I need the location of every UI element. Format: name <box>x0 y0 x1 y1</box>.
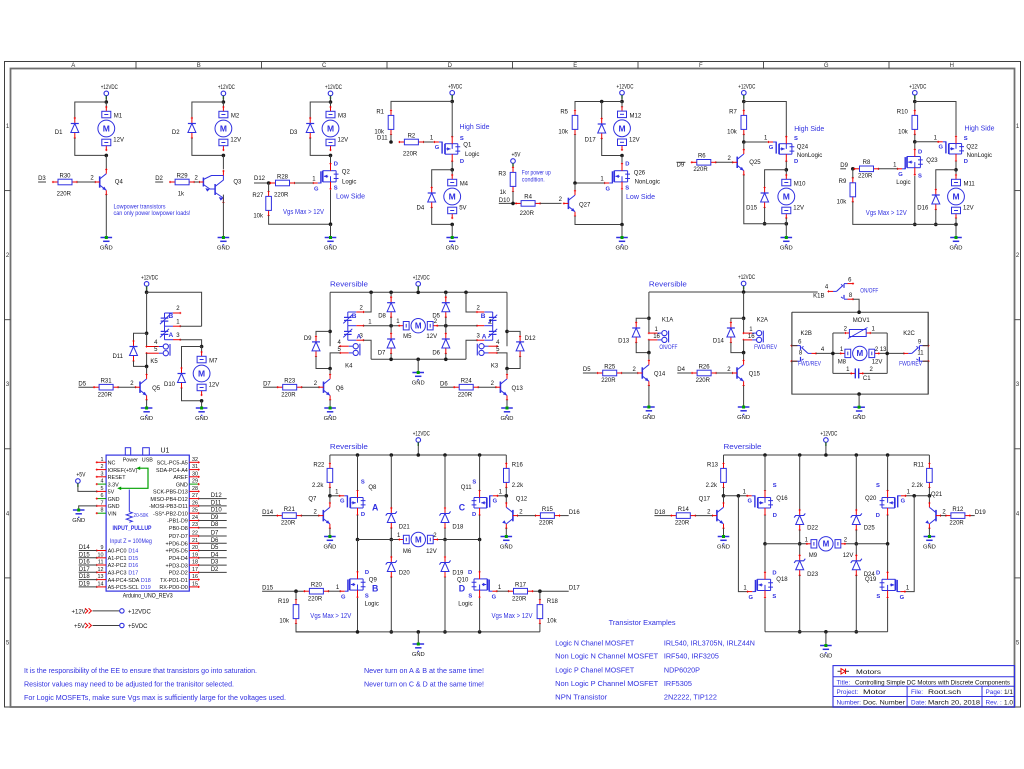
wire to transistor <box>743 353 745 361</box>
p-mosfet Q24 <box>767 136 794 163</box>
wire supply <box>146 286 148 292</box>
resistor R4 <box>515 201 541 207</box>
svg-text:Q19: Q19 <box>865 577 877 583</box>
wire <box>444 528 446 540</box>
wire <box>799 575 801 632</box>
wire diode bottom <box>731 343 744 353</box>
diode D13 <box>632 321 640 343</box>
svg-text:D: D <box>964 159 968 165</box>
svg-text:G: G <box>824 63 829 69</box>
wire to Q22 gate <box>915 141 938 143</box>
wire inner right <box>886 333 888 373</box>
wire to base <box>302 386 319 388</box>
p-mosfet Q1 <box>433 136 460 163</box>
supply link +5V to +5VDC <box>74 623 148 630</box>
wire motor row <box>765 543 807 545</box>
svg-text:D: D <box>448 63 453 69</box>
svg-text:20-50K: 20-50K <box>134 513 149 519</box>
svg-text:AREF: AREF <box>173 475 188 481</box>
transistor Q25 <box>732 149 745 176</box>
ground <box>642 406 655 421</box>
wire to Q10 <box>479 540 481 573</box>
wire to ground <box>330 224 332 237</box>
svg-text:5: 5 <box>101 486 104 492</box>
svg-text:14: 14 <box>98 581 104 587</box>
wire emitter <box>723 528 725 535</box>
svg-text:Q23: Q23 <box>926 158 938 164</box>
varistor MOV1 <box>833 328 887 339</box>
n-mosfet Q10 <box>472 571 498 598</box>
svg-text:M2: M2 <box>231 113 240 119</box>
wire to Q9 drain <box>357 540 359 573</box>
circuit block F2-3 relay drivers <box>0 0 1 1</box>
svg-text:Q10: Q10 <box>457 577 469 583</box>
svg-text:D: D <box>918 150 922 156</box>
wire +5V to pin5 <box>78 483 97 491</box>
svg-text:NPN Transistor: NPN Transistor <box>555 693 608 702</box>
column ticks top <box>136 62 889 69</box>
svg-text:condition.: condition. <box>522 178 545 184</box>
svg-text:D6: D6 <box>440 382 448 388</box>
resistor R8 <box>853 166 879 172</box>
wire to base <box>716 161 733 163</box>
wire input <box>970 515 975 517</box>
wire supply <box>330 96 332 102</box>
wire to gnd <box>785 218 787 237</box>
svg-text:Low Side: Low Side <box>336 192 365 201</box>
svg-text:+12VDC: +12VDC <box>128 609 152 615</box>
svg-text:D: D <box>876 570 880 576</box>
svg-text:Q14: Q14 <box>654 372 666 378</box>
svg-text:4: 4 <box>101 479 104 485</box>
wire left rail down <box>329 292 331 346</box>
resistor R9 <box>850 177 856 203</box>
svg-text:Q2: Q2 <box>342 169 351 175</box>
motor M7 <box>193 351 210 396</box>
title block logo diode <box>838 669 850 674</box>
zener diode D18 <box>439 507 450 529</box>
diode D15 <box>761 186 769 208</box>
svg-text:R7: R7 <box>729 110 737 116</box>
wire pin5 left <box>330 353 340 369</box>
svg-text:R18: R18 <box>547 599 559 605</box>
relay contact K2B <box>790 345 817 363</box>
svg-text:12V: 12V <box>629 138 640 144</box>
svg-text:M: M <box>103 124 110 134</box>
resistor R5 <box>572 109 578 135</box>
svg-text:A5-PC5-SCL: A5-PC5-SCL <box>108 585 139 591</box>
svg-text:D: D <box>459 584 465 594</box>
node D10 junction <box>511 202 515 206</box>
wire to ground <box>451 224 453 237</box>
ic U1 right pins 22-15 <box>159 531 226 592</box>
svg-text:GND: GND <box>72 518 85 524</box>
svg-text:1.0: 1.0 <box>1004 699 1013 706</box>
wire motor to pin1 right <box>437 325 477 327</box>
wire common to motor <box>879 352 904 354</box>
svg-text:K2B: K2B <box>801 331 812 337</box>
svg-text:Q20: Q20 <box>865 496 877 502</box>
svg-text:can only power lowpower loads!: can only power lowpower loads! <box>114 210 191 217</box>
motor M9 <box>806 537 846 551</box>
svg-text:PB0-D8: PB0-D8 <box>169 526 188 532</box>
svg-text:12V: 12V <box>426 549 437 555</box>
svg-text:27: 27 <box>192 493 198 499</box>
wire drain to motor row <box>357 515 359 540</box>
wire input <box>254 182 269 184</box>
wire to R9 <box>852 169 854 178</box>
node gate <box>573 181 577 185</box>
svg-text:M3: M3 <box>338 113 347 119</box>
motor M11 <box>948 174 965 219</box>
svg-text:G: G <box>340 499 345 505</box>
wire to flyback diode <box>192 102 224 118</box>
wire supply to source <box>915 102 956 137</box>
wire <box>390 455 392 508</box>
svg-text:R6: R6 <box>698 154 706 160</box>
zener diode D23 <box>794 554 805 576</box>
wire to mosfet drain <box>330 155 332 163</box>
wire input <box>677 372 692 374</box>
svg-text:A: A <box>372 503 379 513</box>
svg-text:R23: R23 <box>284 379 296 385</box>
svg-text:D: D <box>794 159 798 165</box>
wire divider <box>268 183 270 191</box>
node motor-collector <box>105 154 109 158</box>
svg-text:Q5: Q5 <box>152 386 161 392</box>
svg-text:Motor: Motor <box>863 689 887 696</box>
node motor bottom <box>200 399 204 403</box>
circuit block A1 <box>0 0 1 1</box>
wire to Q25 collector <box>743 142 745 150</box>
motor M4 <box>444 174 461 219</box>
supply +12VDC <box>617 84 634 99</box>
svg-text:D3: D3 <box>290 130 298 136</box>
transistor Q5 <box>134 374 147 401</box>
svg-text:R9: R9 <box>839 179 847 185</box>
node gnd <box>417 630 421 634</box>
wire pin9 up <box>923 312 929 345</box>
svg-text:-MOSI-PB3-D11: -MOSI-PB3-D11 <box>149 504 188 510</box>
svg-text:D: D <box>773 513 777 519</box>
wire diode to motor bottom node <box>75 138 107 155</box>
svg-text:Q15: Q15 <box>749 372 761 378</box>
wire to base <box>941 515 946 517</box>
svg-text:PD2-D2: PD2-D2 <box>169 571 188 577</box>
node Q8 source <box>356 453 360 457</box>
zener diode D24 <box>851 554 862 576</box>
transistor Q7 <box>318 502 331 529</box>
svg-text:A: A <box>71 63 75 69</box>
svg-text:G: G <box>769 145 774 151</box>
svg-text:Q8: Q8 <box>368 485 377 491</box>
svg-text:+12VDC: +12VDC <box>413 275 430 281</box>
resistor R29 <box>169 179 195 185</box>
diode D3 <box>306 117 314 139</box>
svg-text:March 20, 2018: March 20, 2018 <box>928 699 980 706</box>
svg-text:10k: 10k <box>253 213 264 219</box>
node D11 junction <box>389 140 393 144</box>
svg-text:S: S <box>794 136 798 142</box>
resistor R23 <box>277 384 303 390</box>
svg-text:S: S <box>876 483 880 489</box>
svg-text:S: S <box>361 480 365 486</box>
ground <box>853 406 866 421</box>
wire supply <box>825 442 827 455</box>
wire junction to motor <box>222 102 224 107</box>
wire to coil pin1 <box>743 318 745 333</box>
svg-text:R22: R22 <box>313 463 325 469</box>
svg-text:G: G <box>435 145 440 151</box>
transistor Q4 <box>94 168 107 195</box>
svg-text:D19: D19 <box>452 570 464 576</box>
ground <box>217 236 230 251</box>
wire motor row left <box>358 539 400 541</box>
svg-text:R27: R27 <box>252 193 264 199</box>
node D5 bottom <box>444 324 448 328</box>
svg-text:10: 10 <box>98 552 104 558</box>
svg-text:220R: 220R <box>512 596 527 602</box>
transistor Q13 <box>495 374 508 401</box>
wire gate <box>905 495 929 497</box>
wire R16 down <box>505 487 507 495</box>
svg-text:M: M <box>415 322 422 331</box>
wire drain <box>479 515 481 540</box>
svg-text:R29: R29 <box>177 173 189 179</box>
ground <box>446 236 459 251</box>
svg-text:D12: D12 <box>525 336 537 342</box>
svg-text:D15: D15 <box>262 586 274 592</box>
svg-text:D16: D16 <box>917 205 929 211</box>
svg-text:2.2k: 2.2k <box>512 483 524 489</box>
svg-text:GND: GND <box>737 415 750 421</box>
resistor R14 <box>670 513 696 519</box>
svg-text:GND: GND <box>500 544 513 550</box>
svg-text:FWD/REV: FWD/REV <box>754 345 777 351</box>
darlington transistor Q3 <box>198 170 224 204</box>
node D17 junction <box>538 589 542 593</box>
wire pin1 <box>180 325 201 327</box>
ground <box>500 535 513 550</box>
wire Q19 source <box>887 598 889 631</box>
node D9 top <box>328 330 332 334</box>
svg-text:5V: 5V <box>108 490 115 496</box>
wire R18 to bottom <box>539 624 541 632</box>
node diode top <box>600 100 604 104</box>
svg-text:220R: 220R <box>458 392 473 398</box>
wire supply <box>417 286 419 292</box>
svg-text:Vgs Max > 12V: Vgs Max > 12V <box>492 611 533 620</box>
node bottom D16 <box>934 223 938 227</box>
svg-text:12V: 12V <box>872 359 883 365</box>
svg-text:NDP6020P: NDP6020P <box>664 666 700 675</box>
svg-text:D18: D18 <box>141 578 151 584</box>
svg-text:-SS*-PB2-D10: -SS*-PB2-D10 <box>153 511 188 517</box>
node D18 <box>443 538 447 542</box>
svg-text:GND: GND <box>717 544 730 550</box>
wire input <box>262 515 277 517</box>
wire to K4 pin2 <box>364 292 372 312</box>
capacitor C1 <box>833 368 887 378</box>
wire R5 to gate node <box>574 134 576 183</box>
svg-text:+12VDC: +12VDC <box>820 432 837 438</box>
svg-text:USB: USB <box>142 458 153 464</box>
node gnd <box>416 358 420 362</box>
wire outer loop <box>792 312 928 394</box>
svg-text:D19: D19 <box>975 510 987 516</box>
svg-text:29: 29 <box>192 479 198 485</box>
svg-text:220R: 220R <box>308 596 323 602</box>
circuit block H1 high side <box>0 0 1 1</box>
svg-text:Q7: Q7 <box>308 497 317 503</box>
svg-text:IRF540, IRF3205: IRF540, IRF3205 <box>664 652 719 661</box>
svg-text:D11: D11 <box>377 136 388 142</box>
resistor R31 <box>93 384 119 390</box>
svg-text:GND: GND <box>108 504 120 510</box>
svg-text:220R: 220R <box>520 211 535 217</box>
n-mosfet Q18 <box>747 571 773 598</box>
svg-text:R11: R11 <box>913 463 924 469</box>
ic body U1 <box>106 448 189 591</box>
wire emitter to bottom <box>744 175 765 224</box>
wire to R10 <box>914 102 916 111</box>
wire emitter <box>329 400 331 407</box>
wire drain <box>621 156 623 164</box>
wire to D15 <box>765 170 787 188</box>
circuit block F1 high side nonlogic <box>0 0 1 1</box>
wire R3 down <box>512 191 514 203</box>
svg-text:25: 25 <box>192 508 198 514</box>
wire to gnd <box>417 359 419 372</box>
node D18 top <box>443 453 447 457</box>
wire to D14 <box>731 318 744 322</box>
svg-text:M: M <box>327 124 334 134</box>
transistor Q12 <box>502 502 518 529</box>
circuit block A3 relay motor <box>0 0 1 1</box>
relay K3 coil <box>477 344 498 356</box>
wire <box>390 528 392 540</box>
svg-text:10k: 10k <box>837 200 848 206</box>
svg-text:GND: GND <box>412 652 425 658</box>
svg-text:2N2222, TIP122: 2N2222, TIP122 <box>664 693 717 702</box>
svg-text:S: S <box>964 136 968 142</box>
wire emitter to gnd <box>648 386 650 407</box>
wire to motor <box>201 347 203 353</box>
svg-text:D: D <box>772 570 776 576</box>
wire to R13 <box>723 455 725 464</box>
svg-text:D23: D23 <box>807 572 819 578</box>
wire bottom rail <box>296 631 540 633</box>
supply +12VDC <box>141 275 158 290</box>
svg-text:D9: D9 <box>677 163 685 169</box>
svg-text:U1: U1 <box>161 448 170 455</box>
svg-text:Resistor values may need to be: Resistor values may need to be adjusted … <box>24 679 234 688</box>
node motor bottom <box>785 222 789 226</box>
svg-text:M: M <box>415 535 422 544</box>
node A output <box>356 538 360 542</box>
svg-text:S: S <box>772 594 776 600</box>
wire pin3 to motor <box>180 340 201 347</box>
wire Q9 source <box>357 598 359 632</box>
wire drain <box>451 161 453 169</box>
node D8 top <box>389 291 393 295</box>
wire <box>390 540 392 558</box>
svg-text:16: 16 <box>192 574 198 580</box>
node supply junction <box>742 100 746 104</box>
svg-text:R4: R4 <box>524 195 532 201</box>
wire input D9 <box>677 161 686 163</box>
svg-text:IRF5305: IRF5305 <box>664 679 692 688</box>
node D24 <box>855 630 859 634</box>
node Q11 source <box>478 453 482 457</box>
svg-text:G: G <box>606 186 611 192</box>
wire to gnd <box>201 401 203 407</box>
node supply <box>417 453 421 457</box>
svg-text:M5: M5 <box>403 334 412 340</box>
wire supply <box>743 286 745 292</box>
title block <box>833 666 1015 707</box>
ground <box>819 644 832 659</box>
svg-text:10k: 10k <box>898 130 909 136</box>
ground <box>72 509 85 524</box>
wire to D9 <box>316 331 330 336</box>
wire emitter to gnd <box>743 386 745 407</box>
wire to Q19 <box>887 544 889 573</box>
svg-text:A1-PC1: A1-PC1 <box>108 556 127 562</box>
svg-text:20: 20 <box>192 545 198 551</box>
node D9 junction <box>851 167 855 171</box>
svg-text:Vgs Max > 12V: Vgs Max > 12V <box>283 207 324 216</box>
wire Q18 source <box>764 598 766 631</box>
node top <box>857 310 861 314</box>
wire input <box>78 386 94 388</box>
wire pin7 to gnd <box>79 506 97 510</box>
svg-text:D10: D10 <box>164 382 176 388</box>
svg-text:+12VDC: +12VDC <box>909 84 926 90</box>
node supply junction <box>742 290 746 294</box>
wire to gate <box>744 141 769 143</box>
svg-text:12V: 12V <box>843 553 854 559</box>
svg-text:220R: 220R <box>696 378 711 384</box>
p-mosfet Q16 <box>746 489 773 516</box>
node supply junction <box>105 100 109 104</box>
svg-text:G: G <box>939 145 944 151</box>
circuit block E1 low side nonlogic <box>0 0 1 1</box>
svg-text:R13: R13 <box>707 463 719 469</box>
svg-text:R26: R26 <box>699 364 711 370</box>
node flyback top <box>742 317 746 321</box>
resistor R10 <box>912 109 918 135</box>
node D25 <box>855 542 859 546</box>
wire +5v <box>512 163 514 167</box>
svg-text:R16: R16 <box>512 463 524 469</box>
supply +12VDC <box>909 84 926 99</box>
svg-text:G: G <box>341 595 346 601</box>
wire to flyback diode <box>432 170 453 188</box>
wire <box>855 575 857 632</box>
svg-text:12V: 12V <box>209 383 220 389</box>
svg-text:GND: GND <box>217 245 230 251</box>
ground <box>412 643 425 658</box>
svg-text:G: G <box>898 172 903 178</box>
diode D5 <box>442 296 450 318</box>
wire to R11 <box>928 455 930 464</box>
node bottom <box>763 222 767 226</box>
svg-text:R20: R20 <box>311 583 323 589</box>
svg-text:GND: GND <box>100 245 113 251</box>
node <box>798 453 802 457</box>
wire <box>390 317 392 326</box>
